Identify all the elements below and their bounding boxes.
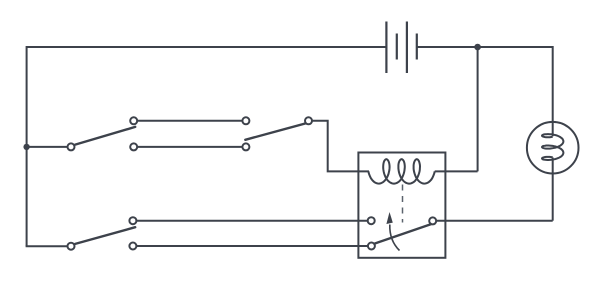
wire: lamp lead to relay contact (437, 220, 553, 222)
relay right contact terminal (429, 217, 436, 224)
lamp L1 envelope (527, 122, 579, 174)
relay actuator dashed link (402, 185, 404, 223)
relay K1 coil winding (368, 159, 434, 183)
wire: left vertical bus (26, 46, 28, 246)
wire: S2 pole to relay coil input (313, 121, 370, 172)
switch S3 arm (75, 227, 135, 244)
relay switch arm (375, 224, 431, 243)
relay lower-left contact terminal (368, 243, 375, 250)
relay K1 enclosure box (358, 153, 445, 258)
wire: top feed from left bus to battery (27, 46, 387, 48)
switch S2 arm (245, 124, 305, 140)
switch S1 upper throw terminal (130, 117, 137, 124)
switch S3 upper throw terminal (129, 217, 136, 224)
switch S3 pole terminal (68, 243, 75, 250)
switch S1 arm (75, 127, 135, 145)
switch S1 lower throw terminal (130, 143, 137, 150)
wire: middle branch from bus to switch S1 pole (27, 146, 67, 148)
wire: lower traveler between S1 and S2 (138, 146, 242, 148)
wire: battery positive to lamp top corner (417, 46, 553, 48)
switch S1 pole terminal (68, 143, 75, 150)
switch S3 lower throw terminal (129, 243, 136, 250)
battery B1 (two cells) (386, 22, 416, 74)
wire: right vertical from junction down to coil (477, 47, 479, 171)
wire: upper traveler between S1 and S2 (138, 120, 242, 122)
wire: lower row from S3 to relay (137, 245, 367, 247)
switch S2 lower-left throw terminal (242, 143, 249, 150)
switch S2 upper-left throw terminal (242, 117, 249, 124)
relay actuator motion arrow (386, 212, 399, 251)
wire: lamp top lead (552, 46, 554, 136)
switch S2 pole terminal (305, 117, 312, 124)
wire: upper row from S3 to relay (137, 220, 367, 222)
wire: bottom-left to switch S3 pole (26, 245, 67, 247)
node: junction of middle branch on left bus (23, 144, 29, 150)
wire: coil output to right bus (435, 170, 478, 172)
lamp L1 filament coil (542, 134, 563, 160)
relay upper-left contact terminal (368, 217, 375, 224)
node: junction feeding relay coil (474, 44, 481, 51)
wire: lamp bottom lead (552, 158, 554, 221)
